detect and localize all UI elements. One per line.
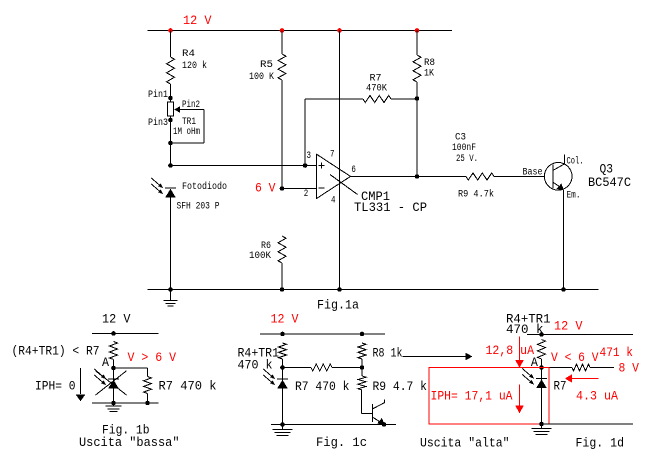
svg-text:12 V: 12 V — [554, 319, 583, 334]
svg-text:12 V: 12 V — [271, 312, 299, 327]
wire comparator output — [351, 176, 467, 178]
svg-text:Pin3: Pin3 — [148, 117, 168, 129]
svg-text:3: 3 — [307, 151, 312, 162]
svg-text:2: 2 — [304, 189, 309, 200]
fig1b wire R7 to bottom rail — [147, 394, 149, 404]
svg-text:7: 7 — [330, 150, 335, 161]
svg-text:IPH= 0: IPH= 0 — [35, 379, 76, 394]
wire 12V top rail — [148, 30, 453, 32]
fig1b node A junction — [111, 366, 116, 371]
fig1c wire node to R7 — [283, 367, 312, 369]
svg-text:8 V: 8 V — [619, 361, 640, 376]
node junction output/R8 — [415, 174, 420, 179]
fig1c resistor R9 — [358, 376, 366, 390]
fig1d wire bottom rail — [542, 423, 634, 425]
svg-text:120 k: 120 k — [182, 60, 207, 72]
wire R8 to output node — [416, 82, 418, 177]
wire wiper Pin2 vertical — [203, 110, 205, 144]
fig1c ground symbol — [282, 425, 284, 430]
fig1d red current arrow 4.3uA left — [572, 378, 599, 380]
node junction ground/R6 — [280, 287, 285, 292]
fig1c wire R7 to right node — [332, 367, 362, 369]
svg-text:12 V: 12 V — [102, 312, 131, 327]
fig1b wire node A to R7 — [114, 367, 148, 369]
fig1c wire R9 to base — [361, 390, 363, 414]
wire wiper Pin2 return — [171, 142, 205, 144]
resistor R7 feedback — [363, 96, 391, 103]
wire photodiode anode to ground rail — [170, 197, 172, 289]
fig1b wire top rail — [92, 333, 159, 335]
node junction 12V/R5 — [280, 28, 285, 33]
svg-text:12,8 uA: 12,8 uA — [486, 343, 535, 358]
fig1b wire down to R7 — [147, 368, 149, 377]
fig1d node junction bottom/photodiode — [539, 422, 544, 427]
fig1c transistor collector lead — [372, 403, 384, 410]
svg-text:TL331 - CP: TL331 - CP — [354, 200, 427, 215]
svg-text:6 V: 6 V — [255, 181, 276, 196]
trimmer TR1 wiper arrow — [174, 106, 180, 112]
fig1b wire resistor to node A — [113, 360, 115, 369]
node junction wiper/cathode — [168, 141, 173, 146]
fig1d wire photodiode branch — [541, 368, 543, 425]
resistor R8 — [413, 55, 421, 82]
fig1c node junction rail/left resistor — [280, 332, 285, 337]
svg-text:4.3 uA: 4.3 uA — [576, 389, 618, 404]
resistor R5 — [278, 54, 286, 80]
svg-text:C3: C3 — [455, 133, 466, 144]
photodiode SFH203P — [165, 187, 176, 189]
wire 12V rail to R4 — [170, 31, 172, 58]
fig1b ground symbol — [113, 403, 115, 406]
svg-text:Em.: Em. — [567, 191, 581, 202]
wire feedback vertical — [304, 99, 306, 166]
svg-text:IPH= 17,1 uA: IPH= 17,1 uA — [431, 389, 513, 404]
fig1c node junction bottom/photodiode — [280, 422, 285, 427]
fig1c transistor emitter lead — [372, 417, 384, 425]
node junction 12V/comparator supply — [337, 28, 342, 33]
svg-text:R8 1k: R8 1k — [373, 346, 403, 361]
fig1c wire R8 to node — [361, 359, 363, 368]
svg-text:R4: R4 — [182, 49, 195, 60]
fig1c node junction bottom/emitter — [382, 422, 387, 427]
svg-text:Fig. 1d: Fig. 1d — [576, 436, 625, 451]
wire feedback to R7 — [305, 98, 363, 100]
fig1d wire top rail — [527, 334, 633, 336]
fig1c wire top rail — [260, 333, 385, 335]
node junction 12V/R8 — [415, 28, 420, 33]
svg-text:6: 6 — [351, 165, 356, 176]
op-amp plus sign — [319, 165, 325, 167]
svg-text:25 V.: 25 V. — [456, 154, 478, 165]
fig1c resistor R8 — [358, 343, 366, 359]
node junction ground/comparator pin4 — [337, 287, 342, 292]
svg-text:Uscita "bassa": Uscita "bassa" — [79, 435, 180, 450]
node Pin1 junction — [168, 96, 173, 101]
fig1b photodiode (crossed out) — [108, 378, 119, 380]
wire 12V rail to R5 — [281, 31, 283, 55]
node Pin3 junction — [168, 118, 173, 123]
fig1b wire photodiode branch — [113, 368, 115, 403]
fig1d photodiode — [536, 378, 547, 380]
svg-text:R9 4.7 k: R9 4.7 k — [373, 379, 428, 394]
fig1c wire photodiode branch — [282, 368, 284, 425]
node junction feedback/plus-input — [303, 163, 308, 168]
fig1b current arrow IPH — [80, 368, 82, 394]
wire ground rail — [148, 289, 599, 291]
svg-text:Uscita "alta": Uscita "alta" — [420, 436, 510, 451]
transistor Q3 base bar — [552, 165, 554, 189]
wire R5 to 6V node — [281, 80, 283, 189]
node junction ground/emitter — [561, 287, 566, 292]
fig1c transistor base bar — [371, 404, 373, 422]
node junction 12V/R4 — [168, 28, 173, 33]
svg-text:Pin1: Pin1 — [148, 89, 168, 101]
wire wiper Pin2 horizontal — [180, 109, 204, 111]
svg-text:1K: 1K — [424, 69, 434, 80]
wire R4 to Pin1 — [170, 84, 172, 98]
resistor R4 — [167, 57, 175, 84]
fig1c wire bottom rail — [271, 424, 396, 426]
svg-text:R5: R5 — [260, 60, 273, 71]
svg-text:SFH 203 P: SFH 203 P — [177, 202, 220, 213]
svg-text:R7 470 k: R7 470 k — [295, 379, 350, 394]
svg-text:R8: R8 — [424, 58, 435, 69]
svg-text:Col.: Col. — [567, 156, 584, 168]
svg-text:12 V: 12 V — [183, 13, 212, 28]
resistor R9 — [466, 173, 494, 180]
fig1d wire 471k to 8V — [590, 367, 614, 369]
transistor Q3 emitter lead — [553, 182, 564, 190]
op-amp U1 comparator CMP1 triangle — [317, 154, 351, 198]
ground symbol — [170, 290, 172, 301]
svg-text:Fig. 1c: Fig. 1c — [316, 435, 367, 450]
wire comparator supply pins 7-4 vertical — [339, 31, 341, 290]
fig1c resistor R7 horizontal — [311, 364, 332, 371]
fig1c node junction rail/R8 — [360, 332, 365, 337]
fig1d resistor R4+TR1 — [538, 340, 546, 360]
op-amp minus sign — [319, 187, 325, 189]
svg-text:Fig.1a: Fig.1a — [317, 298, 359, 313]
fig1d resistor 471k — [572, 364, 590, 371]
node junction R7/R8 — [415, 96, 420, 101]
fig1d red highlight box — [429, 368, 549, 425]
transistor Q3 circle — [544, 163, 572, 191]
pointer line to CMP1 label — [330, 175, 358, 195]
fig1d node junction rail/resistor — [539, 332, 544, 337]
fig1b node junction bottom/photodiode — [111, 401, 116, 406]
wire emitter to ground rail — [563, 190, 565, 290]
fig1c node junction right — [360, 365, 365, 370]
svg-text:(R4+TR1) < R7: (R4+TR1) < R7 — [12, 344, 100, 359]
svg-text:V > 6 V: V > 6 V — [128, 350, 177, 365]
svg-text:4: 4 — [331, 196, 336, 207]
transistor Q3 collector lead — [553, 164, 565, 171]
fig1d wire resistor to node A — [541, 359, 543, 368]
fig1c resistor R4+TR1 — [279, 343, 287, 359]
wire 12V rail to R8 — [416, 31, 418, 56]
svg-text:1M oHm: 1M oHm — [173, 127, 200, 138]
fig1b node junction rail/resistor — [111, 331, 116, 336]
fig1c node junction left — [280, 365, 285, 370]
svg-text:470K: 470K — [366, 84, 387, 95]
svg-text:R7 470 k: R7 470 k — [159, 379, 217, 394]
svg-text:100nF: 100nF — [452, 143, 476, 154]
node junction photodiode/plus-input — [168, 163, 173, 168]
wire to comparator plus input — [171, 165, 318, 167]
svg-text:V < 6 V: V < 6 V — [551, 350, 599, 365]
fig1d red current arrow IPH — [519, 385, 521, 406]
node junction ground/photodiode — [168, 287, 173, 292]
wire R6 to ground rail — [281, 263, 283, 290]
fig1c wire node to R9 — [361, 368, 363, 377]
svg-text:A: A — [102, 355, 109, 370]
svg-text:100 K: 100 K — [249, 72, 274, 83]
svg-text:R7: R7 — [554, 379, 567, 394]
svg-text:Base: Base — [523, 168, 543, 179]
svg-text:471 k: 471 k — [600, 345, 634, 360]
trimmer TR1 body — [168, 102, 174, 116]
fig1b node junction bottom/R7 — [145, 401, 150, 406]
fig1c arrow to fig1d — [403, 356, 467, 358]
svg-text:BC547C: BC547C — [588, 175, 631, 190]
svg-text:Fotodiodo: Fotodiodo — [182, 181, 227, 193]
fig1c photodiode — [277, 378, 288, 380]
wire R9 to base — [494, 176, 545, 178]
fig1b wire bottom rail — [92, 402, 159, 404]
wire trimmer branch vertical — [170, 98, 172, 166]
svg-text:470 k: 470 k — [238, 358, 273, 373]
fig1d wire node A to 471k resistor — [542, 367, 573, 369]
fig1c wire resistor to node — [282, 359, 284, 368]
wire R7 to R8 node — [391, 98, 417, 100]
fig1d node A junction — [539, 365, 544, 370]
fig1b resistor R7 — [144, 377, 152, 394]
fig1d red current arrow 12.8uA — [519, 337, 521, 361]
fig1d ground symbol — [541, 424, 543, 429]
fig1b resistor R4+TR1 — [110, 342, 118, 360]
wire to comparator minus input — [282, 188, 317, 190]
svg-text:100K: 100K — [249, 251, 271, 262]
resistor R6 — [278, 236, 286, 263]
svg-text:R9 4.7k: R9 4.7k — [458, 189, 494, 201]
node junction 6V — [280, 186, 285, 191]
svg-text:Pin2: Pin2 — [182, 99, 200, 111]
